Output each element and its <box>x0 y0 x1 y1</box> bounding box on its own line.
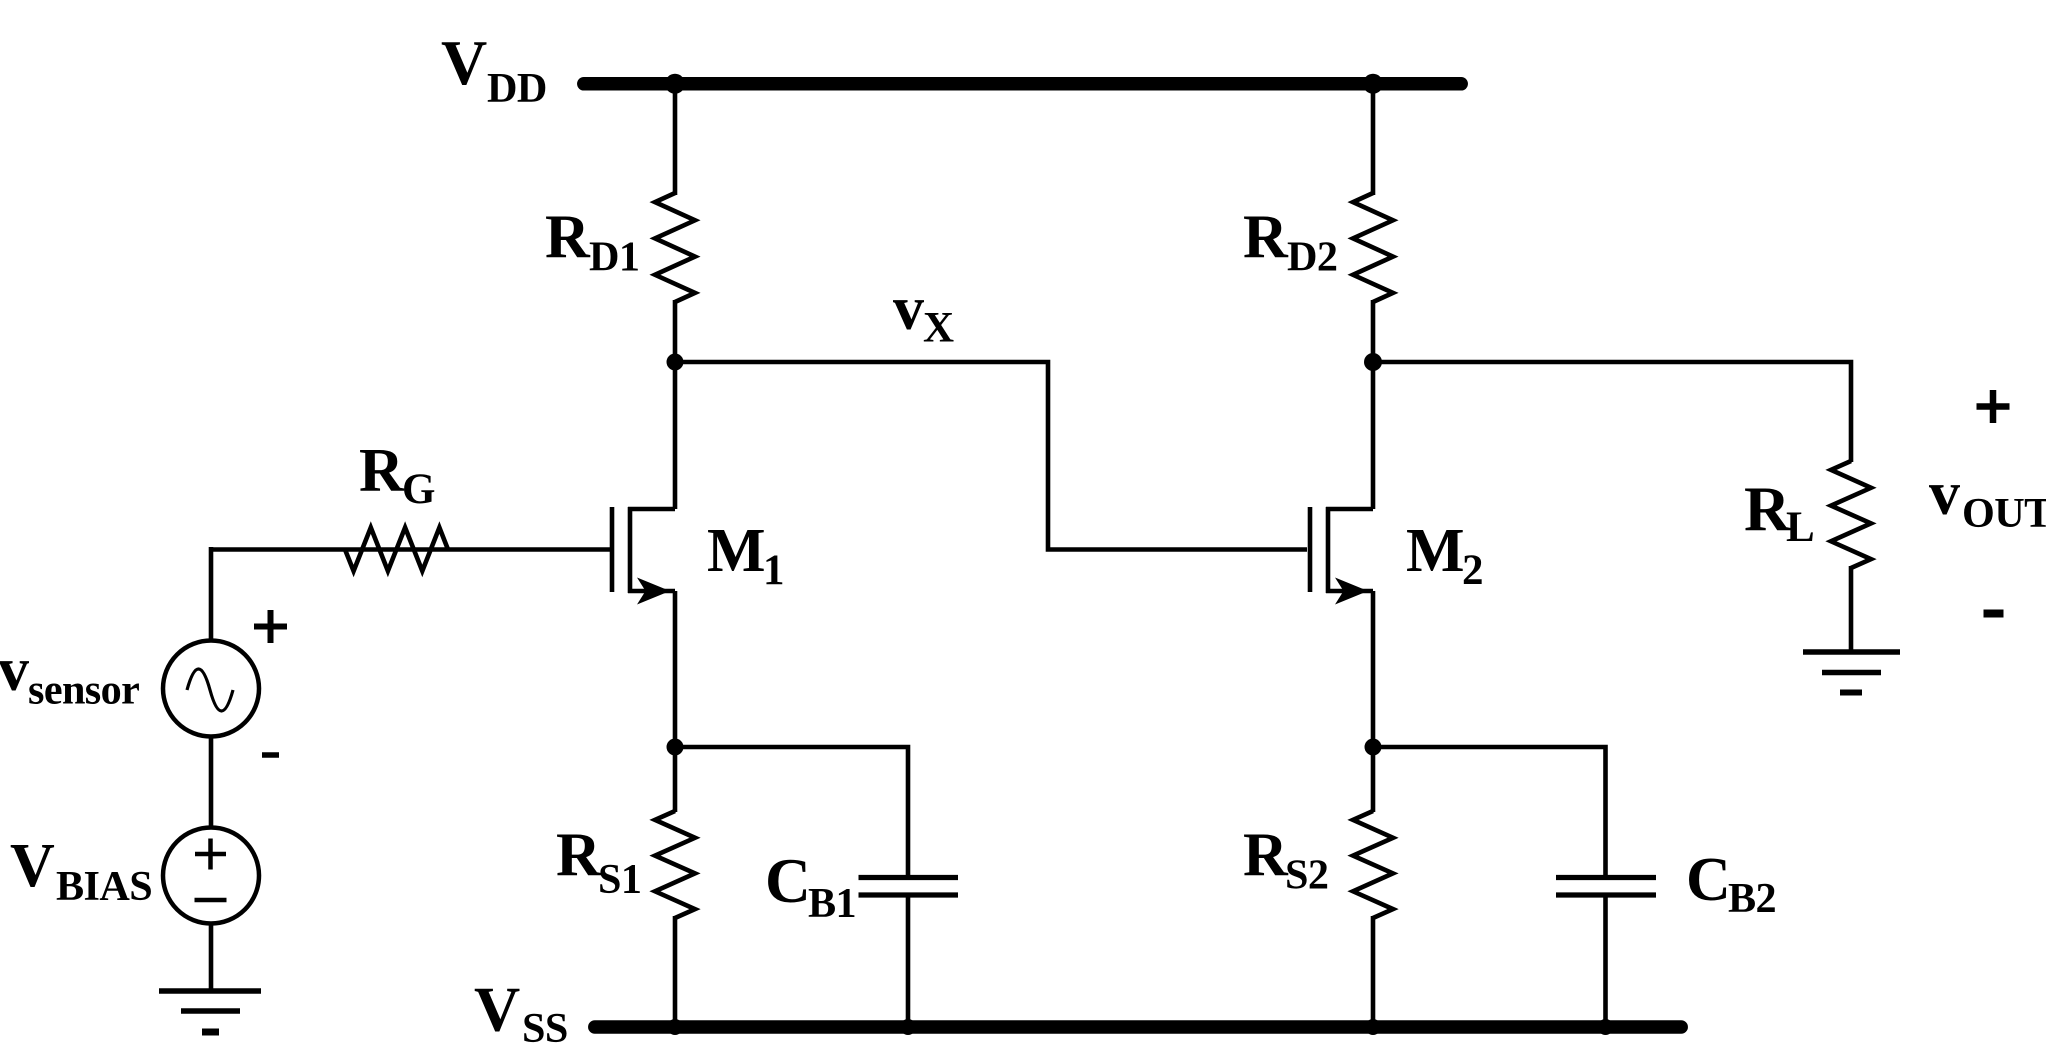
svg-text:v: v <box>0 636 29 704</box>
wire vX node to RL <box>1373 362 1851 462</box>
svg-text:X: X <box>923 305 954 352</box>
wire RD2 to M2 drain <box>1371 300 1376 509</box>
svg-text:S1: S1 <box>598 856 641 903</box>
svg-text:S2: S2 <box>1285 852 1328 899</box>
node vX dot <box>667 354 684 371</box>
node dot M1 source <box>667 739 684 756</box>
svg-text:V: V <box>441 27 487 98</box>
wire gate corner to sensor <box>209 547 214 641</box>
svg-text:SS: SS <box>522 1005 568 1044</box>
svg-text:R: R <box>1744 473 1791 544</box>
svg-text:B2: B2 <box>1728 875 1776 922</box>
minus sign vOUT <box>1984 610 2004 618</box>
capacitor CB1 <box>859 878 959 896</box>
wire M2 source down <box>1371 591 1376 747</box>
svg-text:C: C <box>1686 846 1731 914</box>
svg-text:BIAS: BIAS <box>56 863 152 910</box>
node dot VDD-RD2 <box>1363 74 1383 94</box>
node dot CB1-VSS <box>900 1019 916 1035</box>
svg-text:B1: B1 <box>808 880 856 927</box>
svg-text:V: V <box>474 974 520 1044</box>
node dot RD2-M2 drain <box>1364 353 1382 371</box>
svg-text:R: R <box>545 204 591 272</box>
resistor RD2 <box>1353 193 1393 302</box>
capacitor CB2 <box>1556 878 1656 896</box>
wire VDD to RD1 <box>673 88 678 195</box>
svg-text:V: V <box>10 832 55 900</box>
ground under VBIAS <box>159 991 261 1032</box>
node dot CB2-VSS <box>1598 1019 1614 1035</box>
svg-text:v: v <box>893 275 924 343</box>
wire VBIAS to ground <box>209 924 214 992</box>
wire node vX to M2 gate <box>675 362 1307 550</box>
svg-text:L: L <box>1786 504 1815 551</box>
svg-text:R: R <box>1243 822 1289 890</box>
wire CB1 to VSS <box>906 895 911 1027</box>
node dot RS2-VSS <box>1365 1019 1381 1035</box>
plus sign sensor <box>254 610 287 643</box>
svg-text:sensor: sensor <box>28 667 139 714</box>
resistor RL <box>1831 461 1871 568</box>
svg-text:C: C <box>765 845 811 916</box>
plus sign in VBIAS <box>195 839 226 870</box>
minus sign sensor <box>262 752 279 758</box>
sine wave in vsensor <box>187 669 233 711</box>
wire RS1 to VSS <box>673 916 678 1027</box>
wire M1 source down <box>673 591 678 747</box>
resistor RS1 <box>655 811 695 918</box>
node dot M2 source <box>1365 739 1382 756</box>
node dot VDD-RD1 <box>665 74 685 94</box>
wire VDD to RD2 <box>1371 88 1376 195</box>
svg-text:OUT: OUT <box>1962 490 2046 537</box>
svg-text:R: R <box>359 437 405 505</box>
svg-text:G: G <box>402 466 435 513</box>
svg-text:1: 1 <box>763 547 785 594</box>
svg-text:v: v <box>1929 460 1960 528</box>
svg-text:R: R <box>1243 204 1289 272</box>
source vsensor <box>163 641 259 737</box>
wire RD1 to M1 drain <box>673 300 678 509</box>
wire M1 gate lead <box>211 547 610 552</box>
wire vsensor to VBIAS <box>209 737 214 828</box>
wire M1 source node to RS1 <box>673 747 678 812</box>
node dot RS1-VSS <box>667 1019 683 1035</box>
svg-text:DD: DD <box>487 65 547 112</box>
svg-text:M: M <box>707 517 766 585</box>
resistor RS2 <box>1353 811 1393 918</box>
wire CB2 to VSS <box>1603 895 1608 1027</box>
svg-text:M: M <box>1406 517 1465 585</box>
svg-text:D2: D2 <box>1287 234 1337 281</box>
svg-text:R: R <box>556 822 602 890</box>
wire RL to ground <box>1849 566 1854 652</box>
ground under RL <box>1803 652 1900 693</box>
svg-text:D1: D1 <box>589 234 639 281</box>
transistor M2 <box>1310 507 1373 605</box>
node VSS rail <box>595 1020 1681 1034</box>
wire M2 source node to RS2 <box>1371 747 1376 812</box>
source VBIAS <box>163 828 259 924</box>
svg-text:2: 2 <box>1462 547 1484 594</box>
node VDD rail <box>584 77 1461 91</box>
minus sign in VBIAS <box>195 898 227 903</box>
transistor M1 <box>612 507 675 605</box>
wire source node to CB1 <box>675 747 908 877</box>
resistor RD1 <box>655 193 695 302</box>
resistor RG <box>345 528 448 572</box>
plus sign vOUT <box>1977 390 2010 423</box>
wire RS2 to VSS <box>1371 916 1376 1027</box>
wire source node to CB2 <box>1373 747 1606 877</box>
